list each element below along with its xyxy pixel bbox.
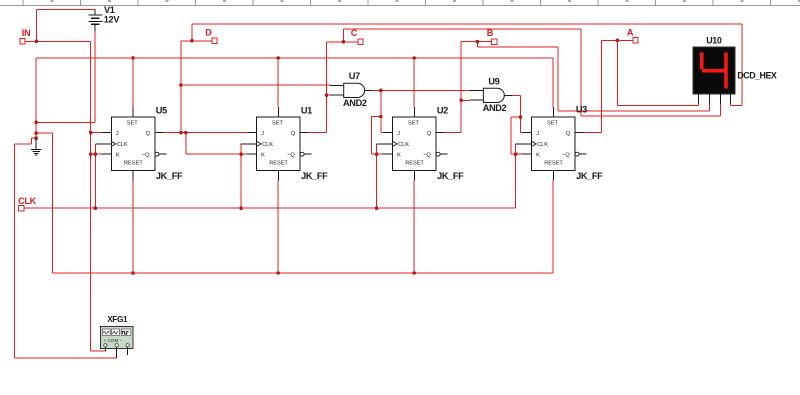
svg-text:U5: U5 [156, 106, 167, 116]
and-gate U9 [470, 88, 512, 102]
svg-text:DCD_HEX: DCD_HEX [737, 71, 776, 81]
svg-text:XFG1: XFG1 [107, 315, 128, 324]
svg-text:Q: Q [566, 131, 571, 137]
svg-text:CLK: CLK [398, 142, 409, 148]
toolbar bottom strip [0, 0, 800, 6]
svg-text:D: D [205, 28, 212, 38]
wire IN net [25, 9, 105, 351]
svg-text:CLK: CLK [262, 142, 273, 148]
svg-text:IN: IN [22, 28, 31, 38]
svg-text:CLK: CLK [18, 196, 37, 206]
svg-text:JK_FF: JK_FF [301, 171, 328, 181]
svg-text:U10: U10 [706, 35, 722, 45]
wire U7 output net [372, 90, 471, 154]
connector port B [492, 39, 497, 44]
svg-text:J: J [397, 131, 400, 137]
svg-text:J: J [261, 131, 264, 137]
jk flip-flop U2 [377, 107, 448, 180]
jk flip-flop U5 [95, 107, 166, 180]
svg-text:JK_FF: JK_FF [156, 171, 183, 181]
svg-text:AND2: AND2 [343, 98, 367, 108]
svg-text:U1: U1 [301, 106, 312, 116]
svg-text:~Q: ~Q [562, 152, 570, 158]
svg-text:K: K [116, 152, 120, 158]
svg-text:+ COM −: + COM − [104, 338, 123, 343]
svg-text:U2: U2 [437, 106, 448, 116]
wire SET bus [36, 58, 553, 107]
svg-text:J: J [536, 131, 539, 137]
svg-text:RESET: RESET [405, 161, 424, 167]
wire net A [583, 40, 699, 132]
svg-text:RESET: RESET [544, 161, 563, 167]
svg-text:12V: 12V [104, 15, 121, 25]
svg-text:B: B [487, 28, 494, 38]
svg-text:A: A [627, 28, 634, 38]
svg-text:RESET: RESET [269, 161, 288, 167]
svg-text:Q: Q [427, 131, 432, 137]
svg-text:U7: U7 [349, 71, 360, 81]
svg-text:RESET: RESET [124, 161, 143, 167]
function generator XFG1 [101, 327, 133, 358]
svg-text:~Q: ~Q [423, 152, 431, 158]
svg-text:AND2: AND2 [483, 103, 507, 113]
wire net D [163, 24, 742, 133]
svg-text:K: K [261, 152, 265, 158]
svg-text:~Q: ~Q [142, 152, 150, 158]
wire net B [444, 42, 709, 133]
svg-text:U9: U9 [488, 77, 499, 87]
wire CLK bus [24, 144, 516, 208]
connector port IN [20, 39, 25, 44]
svg-text:Q: Q [291, 131, 296, 137]
svg-text:CLK: CLK [537, 142, 548, 148]
svg-text:CLK: CLK [117, 142, 128, 148]
wire ground riser and branches [15, 58, 117, 358]
svg-text:SET: SET [408, 120, 419, 126]
svg-text:SET: SET [547, 120, 558, 126]
svg-text:SET: SET [272, 120, 283, 126]
svg-text:JK_FF: JK_FF [576, 171, 603, 181]
wire U9 output net [511, 95, 524, 154]
connector port CLK [19, 206, 24, 211]
display U10 (DCD_HEX) [693, 47, 735, 104]
connector port D [212, 38, 217, 43]
wire battery negative to ground [36, 31, 95, 122]
wire net C [308, 29, 720, 133]
ground [31, 138, 42, 155]
svg-text:C: C [351, 28, 358, 38]
wire U5 Q to U1 K tie [186, 133, 247, 155]
svg-text:V1: V1 [104, 5, 115, 15]
and-gate U7 [330, 83, 372, 97]
svg-text:JK_FF: JK_FF [437, 171, 464, 181]
svg-text:K: K [397, 152, 401, 158]
svg-text:U3: U3 [576, 104, 587, 114]
connector port C [358, 39, 363, 44]
connector port A [633, 38, 638, 43]
svg-text:J: J [116, 131, 119, 137]
svg-text:~Q: ~Q [287, 152, 295, 158]
wire RESET bus [53, 180, 554, 273]
jk flip-flop U3 [516, 107, 587, 180]
svg-text:Q: Q [146, 131, 151, 137]
svg-text:SET: SET [127, 120, 138, 126]
battery V1 [89, 9, 103, 31]
jk flip-flop U1 [241, 107, 312, 180]
svg-text:K: K [536, 152, 540, 158]
